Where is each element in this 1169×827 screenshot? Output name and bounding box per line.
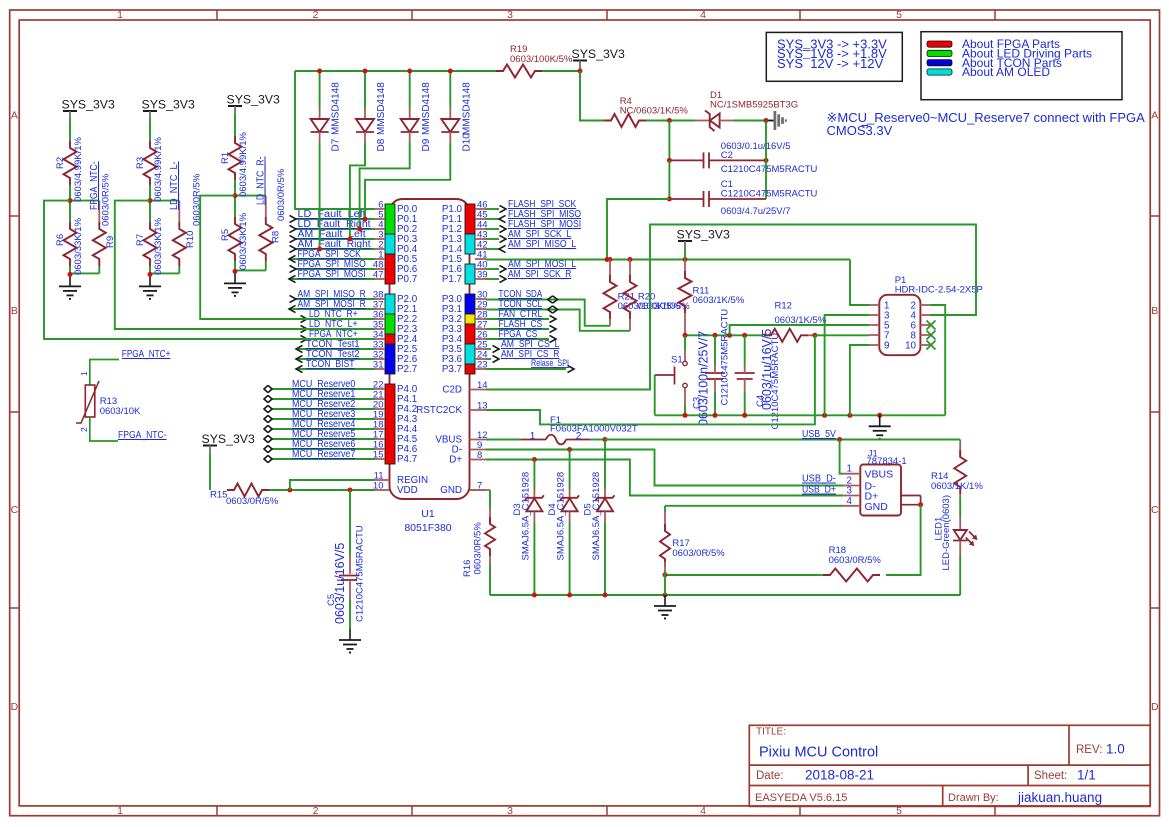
resistor R2 bbox=[64, 141, 77, 185]
svg-text:R5: R5 bbox=[220, 229, 231, 241]
svg-text:FPGA_SPI_MOSI: FPGA_SPI_MOSI bbox=[298, 269, 366, 280]
resistor R16 (GND pin) bbox=[470, 489, 491, 491]
svg-text:P0.7: P0.7 bbox=[397, 274, 417, 285]
wire REGIN branch bbox=[290, 480, 375, 490]
wire bus to P0.0 bbox=[295, 71, 375, 209]
wire P1 pin4 / C2D bbox=[486, 225, 976, 390]
svg-text:R2: R2 bbox=[55, 157, 66, 169]
reset net horizontal bbox=[685, 334, 764, 336]
svg-text:5: 5 bbox=[896, 9, 902, 21]
svg-text:B: B bbox=[11, 305, 18, 317]
svg-text:NC/0603/1K/5%: NC/0603/1K/5% bbox=[620, 106, 689, 117]
svg-text:R10: R10 bbox=[185, 231, 196, 248]
svg-text:0603/4.99K/1%: 0603/4.99K/1% bbox=[73, 136, 84, 202]
J1 shield stubs bbox=[901, 495, 921, 497]
svg-text:MMSD4148: MMSD4148 bbox=[421, 82, 432, 135]
svg-text:P2.7: P2.7 bbox=[397, 364, 417, 375]
svg-text:0603/33K/1%: 0603/33K/1% bbox=[153, 217, 164, 275]
bottom gnd rail bbox=[490, 594, 960, 596]
svg-text:R3: R3 bbox=[135, 157, 146, 169]
svg-text:C: C bbox=[11, 504, 19, 516]
power flag SYS_3V3 (R19) bbox=[573, 60, 587, 62]
thermistor R13 bbox=[90, 360, 119, 386]
svg-text:0603/100n/25V/7: 0603/100n/25V/7 bbox=[696, 331, 710, 426]
resistor R5 bbox=[234, 196, 236, 217]
svg-text:R1: R1 bbox=[220, 152, 231, 164]
resistor R14 bbox=[959, 440, 961, 442]
svg-text:Date:: Date: bbox=[756, 770, 784, 782]
svg-text:AM_SPI_MISO_L: AM_SPI_MISO_L bbox=[508, 239, 577, 250]
junction dots bbox=[68, 198, 73, 203]
svg-text:14: 14 bbox=[477, 380, 488, 391]
svg-text:0603/1u/16V/5: 0603/1u/16V/5 bbox=[333, 543, 347, 624]
svg-text:C2: C2 bbox=[721, 150, 733, 161]
wire P1 pin9 to gnd rail bbox=[850, 345, 869, 415]
svg-text:8: 8 bbox=[477, 450, 482, 461]
gnd rail (reset area) bbox=[655, 414, 946, 416]
diode D10 MMSD4148 bbox=[449, 71, 451, 108]
svg-text:GND: GND bbox=[865, 501, 889, 513]
wire USB_5V to J1 pin1 bbox=[840, 440, 843, 474]
no-connect X marks pins 6,8,10 bbox=[927, 321, 936, 330]
legend box bbox=[921, 32, 1122, 100]
resistor R6 bbox=[69, 201, 71, 222]
U1 colored pin group boxes bbox=[385, 204, 395, 234]
svg-text:1: 1 bbox=[847, 464, 852, 475]
resistor R21 bbox=[609, 260, 611, 276]
junction dot D7 bbox=[317, 69, 322, 74]
svg-text:TITLE:: TITLE: bbox=[756, 727, 786, 738]
junction dots bbox=[148, 198, 153, 203]
svg-text:0603/1K/5%: 0603/1K/5% bbox=[638, 301, 690, 312]
info box: power rail mapping bbox=[766, 32, 902, 81]
svg-text:SYS_3V3: SYS_3V3 bbox=[202, 432, 255, 446]
connector J1 787834-1 bbox=[860, 465, 901, 516]
svg-text:0603/4.99K/1%: 0603/4.99K/1% bbox=[238, 131, 249, 197]
diode D9 MMSD4148 bbox=[409, 71, 411, 108]
svg-text:USB_D-: USB_D- bbox=[802, 474, 836, 485]
svg-text:2: 2 bbox=[79, 427, 89, 432]
wire: network2 node to LD_NTC_L+ row bbox=[115, 201, 375, 329]
svg-text:R7: R7 bbox=[135, 234, 146, 246]
svg-text:1.0: 1.0 bbox=[1106, 742, 1125, 757]
svg-text:3: 3 bbox=[507, 9, 513, 21]
svg-text:VDD: VDD bbox=[397, 485, 418, 496]
svg-text:B: B bbox=[1151, 305, 1158, 317]
svg-text:CMOS3.3V: CMOS3.3V bbox=[827, 123, 893, 138]
wire P1 pin2 to gnd rail bbox=[931, 305, 946, 415]
svg-text:SYS_3V3: SYS_3V3 bbox=[677, 228, 730, 242]
svg-text:23: 23 bbox=[477, 360, 488, 371]
svg-text:Relase_SPI: Relase_SPI bbox=[531, 358, 569, 368]
power flag SYS_3V3 (R15) bbox=[203, 445, 217, 447]
svg-text:R16: R16 bbox=[462, 560, 473, 577]
svg-text:1: 1 bbox=[530, 431, 536, 442]
junction dots bbox=[233, 193, 238, 198]
svg-text:C1210C475M5RACTU: C1210C475M5RACTU bbox=[720, 309, 731, 406]
wire: down to R4 row bbox=[580, 71, 604, 121]
diode D8 MMSD4148 bbox=[364, 71, 366, 108]
svg-text:4: 4 bbox=[700, 805, 706, 817]
capacitor C3 bbox=[714, 335, 716, 365]
diode D7 MMSD4148 bbox=[319, 71, 321, 108]
svg-text:0603/0R/5%: 0603/0R/5% bbox=[276, 168, 287, 221]
svg-text:SYS_3V3: SYS_3V3 bbox=[62, 98, 115, 112]
svg-text:SYS_3V3: SYS_3V3 bbox=[572, 47, 625, 61]
wire R18 to R17 bottom bbox=[665, 574, 816, 576]
wire P1 pin5 to reset net bbox=[730, 325, 869, 335]
svg-text:C2D: C2D bbox=[442, 385, 462, 396]
resistor R18 bbox=[823, 569, 880, 582]
gray power arrow flag bbox=[766, 120, 774, 122]
svg-text:2: 2 bbox=[576, 431, 582, 442]
svg-text:SYS_3V3: SYS_3V3 bbox=[142, 98, 195, 112]
title block bbox=[749, 725, 1150, 806]
svg-text:F0603FA1000V032T: F0603FA1000V032T bbox=[550, 424, 638, 435]
Relase_SPI port bbox=[486, 368, 566, 370]
resistor R9 bbox=[70, 200, 99, 202]
svg-text:C1210C475M5RACTU: C1210C475M5RACTU bbox=[721, 189, 818, 200]
svg-text:LED-Green(0603): LED-Green(0603) bbox=[941, 495, 952, 571]
svg-text:SMAJ6.5A_C151928: SMAJ6.5A_C151928 bbox=[591, 472, 602, 561]
resistor R7 bbox=[149, 201, 151, 222]
U1 MCU 8051F380 body bbox=[390, 199, 470, 499]
wire D8 to P0.3 bbox=[350, 143, 365, 239]
svg-text:1/1: 1/1 bbox=[1077, 768, 1096, 783]
capacitor C1 bbox=[668, 160, 670, 199]
svg-text:FPGA_NTC-: FPGA_NTC- bbox=[89, 161, 100, 210]
svg-text:VBUS: VBUS bbox=[865, 469, 894, 481]
U1 right pins bbox=[475, 208, 486, 210]
svg-text:Pixiu MCU Control: Pixiu MCU Control bbox=[759, 745, 878, 761]
resistor R20 bbox=[629, 260, 631, 276]
power flag SYS_3V3 (R2) bbox=[63, 110, 77, 112]
svg-text:NC/1SMB5925BT3G: NC/1SMB5925BT3G bbox=[710, 100, 798, 111]
USB_5V wire bbox=[605, 439, 960, 441]
svg-text:3: 3 bbox=[507, 805, 513, 817]
resistor R8 bbox=[235, 195, 266, 197]
svg-text:Sheet:: Sheet: bbox=[1034, 770, 1067, 782]
fuse F1 F0603FA1000V032T bbox=[486, 439, 521, 441]
TVS diode D4 bbox=[569, 450, 571, 490]
switch S1 bbox=[684, 335, 686, 350]
resistor R15 bbox=[227, 484, 269, 497]
svg-text:RSTC2CK: RSTC2CK bbox=[416, 405, 462, 416]
svg-text:A: A bbox=[1151, 110, 1158, 122]
right net port labels/arrows bbox=[486, 208, 499, 210]
svg-text:2: 2 bbox=[313, 805, 319, 817]
svg-text:LD_NTC_L-: LD_NTC_L- bbox=[169, 161, 180, 210]
svg-text:SYS_3V3: SYS_3V3 bbox=[227, 93, 280, 107]
svg-text:0603/0R/5%: 0603/0R/5% bbox=[101, 173, 112, 226]
svg-text:787834-1: 787834-1 bbox=[867, 456, 907, 467]
wire J1 shield to R18 bbox=[886, 505, 921, 575]
svg-text:jiakuan.huang: jiakuan.huang bbox=[1017, 790, 1102, 805]
svg-text:D: D bbox=[11, 701, 19, 713]
svg-text:10: 10 bbox=[905, 341, 916, 352]
svg-text:8051F380: 8051F380 bbox=[404, 522, 451, 534]
svg-text:D8: D8 bbox=[376, 138, 387, 151]
wire D10 to P0.1 bbox=[365, 143, 450, 219]
wire D+ to J1 bbox=[486, 460, 843, 496]
ground bbox=[149, 275, 151, 286]
svg-text:R6: R6 bbox=[55, 234, 66, 246]
junction dot D8 bbox=[363, 69, 368, 74]
svg-text:LD_NTC_R-: LD_NTC_R- bbox=[256, 156, 267, 205]
resistor R11 bbox=[684, 260, 686, 272]
svg-text:10: 10 bbox=[373, 481, 384, 492]
svg-text:C1210C475M5RACTU: C1210C475M5RACTU bbox=[721, 164, 818, 175]
wire D- to J1 bbox=[486, 450, 843, 486]
svg-text:2018-08-21: 2018-08-21 bbox=[805, 768, 874, 783]
svg-text:47: 47 bbox=[373, 270, 384, 281]
svg-text:AM_SPI_SCK_R: AM_SPI_SCK_R bbox=[508, 269, 571, 280]
svg-text:C: C bbox=[1151, 504, 1159, 516]
resistor R17 bbox=[664, 506, 666, 512]
svg-text:U1: U1 bbox=[421, 508, 435, 520]
svg-text:D7: D7 bbox=[331, 138, 342, 151]
junction dot D10 bbox=[448, 69, 453, 74]
svg-text:P4.7: P4.7 bbox=[397, 454, 417, 465]
svg-text:0603/0R/5%: 0603/0R/5% bbox=[829, 555, 882, 566]
ground bbox=[349, 629, 351, 640]
svg-text:0603/100K/5%: 0603/100K/5% bbox=[510, 54, 573, 65]
svg-text:R15: R15 bbox=[210, 490, 227, 501]
svg-text:A: A bbox=[11, 110, 18, 122]
svg-text:0603/0R/5%: 0603/0R/5% bbox=[473, 522, 484, 575]
svg-text:GND: GND bbox=[440, 485, 462, 496]
junction dot D9 bbox=[407, 69, 412, 74]
svg-text:SMAJ6.5A_C151928: SMAJ6.5A_C151928 bbox=[556, 472, 567, 561]
wire S1 arm to gnd rail bbox=[654, 375, 656, 415]
svg-text:0603/0R/5%: 0603/0R/5% bbox=[672, 548, 725, 559]
connector P1 HDR-IDC-2.54-2X5P bbox=[879, 295, 920, 355]
svg-text:0603/33K/1%: 0603/33K/1% bbox=[73, 217, 84, 275]
MCU_Reserve bidirectional ports bbox=[272, 388, 375, 390]
svg-text:4: 4 bbox=[847, 496, 853, 507]
svg-text:R12: R12 bbox=[775, 301, 792, 312]
resistor R4 bbox=[604, 114, 646, 127]
top bus wire bbox=[295, 70, 503, 72]
svg-text:S1: S1 bbox=[671, 355, 683, 366]
svg-text:0603/4.7u/25V/7: 0603/4.7u/25V/7 bbox=[721, 206, 791, 217]
svg-text:1: 1 bbox=[79, 371, 89, 376]
svg-text:0603/0R/5%: 0603/0R/5% bbox=[226, 496, 279, 507]
svg-text:SMAJ6.5A_C151928: SMAJ6.5A_C151928 bbox=[521, 472, 532, 561]
svg-text:31: 31 bbox=[373, 360, 384, 371]
ground bbox=[879, 415, 881, 426]
svg-text:FPGA_NTC-: FPGA_NTC- bbox=[118, 430, 167, 441]
junction: R19/SYS_3V3 bbox=[578, 69, 583, 74]
resistor R1 bbox=[229, 136, 242, 180]
svg-text:C1210C475M5RACTU: C1210C475M5RACTU bbox=[355, 525, 366, 622]
svg-text:USB_5V: USB_5V bbox=[802, 429, 836, 440]
wire VDD row bbox=[290, 489, 375, 491]
svg-text:MMSD4148: MMSD4148 bbox=[461, 82, 472, 135]
svg-text:MCU_Reserve7: MCU_Reserve7 bbox=[292, 449, 356, 460]
wire D9 to P0.2 bbox=[360, 143, 410, 229]
LED1 LED-Green(0603) bbox=[959, 516, 961, 530]
svg-text:REV:: REV: bbox=[1076, 744, 1102, 756]
resistor R10 bbox=[150, 200, 179, 202]
svg-text:0603/1K/5%: 0603/1K/5% bbox=[693, 295, 745, 306]
junction dot F1 out bbox=[603, 437, 608, 442]
svg-text:1: 1 bbox=[117, 805, 123, 817]
resistor R19 bbox=[535, 70, 580, 72]
svg-text:P1.7: P1.7 bbox=[442, 274, 462, 285]
svg-text:9: 9 bbox=[884, 341, 889, 352]
svg-text:MMSD4148: MMSD4148 bbox=[331, 82, 342, 135]
TCON_SDA / TCON_SCL bidirectional nets to pullups bbox=[486, 300, 610, 326]
svg-text:D+: D+ bbox=[449, 455, 462, 466]
svg-text:0603/4.99K/1%: 0603/4.99K/1% bbox=[153, 136, 164, 202]
ground bbox=[664, 595, 666, 606]
svg-text:1: 1 bbox=[117, 9, 123, 21]
svg-text:2: 2 bbox=[313, 9, 319, 21]
wire P1 pin1 from SYS rail bbox=[850, 260, 869, 306]
power flag SYS_3V3 (R3) bbox=[143, 110, 157, 112]
capacitor C2 bbox=[668, 121, 670, 161]
wire: network3 node to LD_NTC_R+ row bbox=[200, 196, 374, 319]
svg-text:USB_D+: USB_D+ bbox=[802, 485, 836, 496]
svg-text:D9: D9 bbox=[421, 138, 432, 151]
svg-text:39: 39 bbox=[477, 270, 488, 281]
wire P1 pin3 to gnd rail bbox=[825, 315, 869, 415]
U1 left pins bbox=[375, 208, 386, 210]
svg-text:HDR-IDC-2.54-2X5P: HDR-IDC-2.54-2X5P bbox=[895, 285, 983, 296]
wire D7 to P0.4 bbox=[319, 143, 321, 249]
svg-text:Drawn By:: Drawn By: bbox=[948, 792, 999, 804]
wire C1 row to SYS_3V3 net vertical bbox=[607, 199, 669, 260]
svg-text:13: 13 bbox=[477, 401, 488, 412]
wire pin41 SYS_3V3 rail bbox=[486, 259, 850, 261]
resistor R12 bbox=[764, 329, 808, 342]
wire P1 pin7 to reset net bbox=[815, 334, 869, 336]
power flag SYS_3V3 (R11) bbox=[678, 240, 692, 242]
wire: network1 node to FPGA_NTC+ row bbox=[44, 201, 375, 339]
resistor R3 bbox=[144, 141, 157, 185]
diode D1 zener NC/1SMB5925BT3G bbox=[669, 120, 695, 122]
TVS diode D3 SMAJ6.5A bbox=[533, 460, 535, 490]
ground bbox=[69, 275, 71, 286]
svg-text:4: 4 bbox=[700, 9, 706, 21]
svg-text:15: 15 bbox=[373, 450, 384, 461]
svg-text:0603/10K: 0603/10K bbox=[100, 406, 141, 417]
svg-text:R8: R8 bbox=[270, 231, 281, 243]
TVS diode D5 bbox=[604, 440, 606, 490]
svg-text:SYS¯12V -> +12V: SYS¯12V -> +12V bbox=[777, 56, 884, 71]
wire RSTC2CK bbox=[486, 335, 815, 424]
capacitor C4 bbox=[744, 335, 746, 365]
wire J1 GND to R17 bbox=[665, 505, 843, 507]
svg-text:About AM OLED: About AM OLED bbox=[962, 65, 1050, 79]
capacitor C5 bbox=[349, 490, 351, 556]
svg-text:P3.7: P3.7 bbox=[442, 364, 462, 375]
svg-text:0603/33K/1%: 0603/33K/1% bbox=[238, 212, 249, 270]
svg-text:FPGA_NTC+: FPGA_NTC+ bbox=[122, 349, 171, 360]
ground bbox=[234, 272, 236, 283]
power flag SYS_3V3 (R1) bbox=[228, 105, 242, 107]
svg-text:MMSD4148: MMSD4148 bbox=[376, 82, 387, 135]
svg-text:TCON_BIST: TCON_BIST bbox=[306, 359, 355, 370]
svg-text:0603/1K/1%: 0603/1K/1% bbox=[931, 481, 983, 492]
svg-text:D: D bbox=[1151, 701, 1159, 713]
left net port labels/arrows bbox=[296, 218, 375, 220]
junction dots on R4/D1 row bbox=[667, 118, 672, 123]
svg-text:EASYEDA V5.6.15: EASYEDA V5.6.15 bbox=[755, 792, 847, 804]
